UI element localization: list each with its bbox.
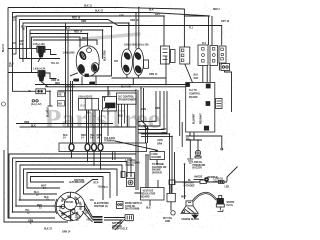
component engine block xyxy=(181,201,199,213)
component gnd terminal circle xyxy=(171,211,175,215)
svg-text:BLK: BLK xyxy=(31,126,36,128)
component R1 connector xyxy=(36,89,46,94)
wire T2 right out xyxy=(45,73,57,79)
svg-text:RED 14: RED 14 xyxy=(74,31,83,34)
svg-text:RED/BLK: RED/BLK xyxy=(208,177,219,179)
svg-text:BLU 17: BLU 17 xyxy=(3,43,5,52)
wire box D stem down xyxy=(165,56,167,85)
wire stator top diag xyxy=(76,180,99,193)
svg-text:L05(+)-10A 1.05(+)-13A: L05(+)-10A 1.05(+)-13A xyxy=(124,44,149,47)
svg-text:ORN: ORN xyxy=(81,21,86,23)
component T1 transformer xyxy=(37,46,45,57)
svg-text:BLK 22: BLK 22 xyxy=(44,229,53,231)
wire riser pair oval4 xyxy=(100,110,102,143)
wire T2 diag xyxy=(41,82,48,87)
wire strip sub pair xyxy=(113,152,116,161)
wire bus W5 ORN xyxy=(23,23,129,62)
wire bus W4 xyxy=(20,20,222,59)
arrowhead 2 xyxy=(146,128,149,131)
svg-text:L05(+)/1Q DC: L05(+)/1Q DC xyxy=(78,96,93,98)
wire bus W1 top xyxy=(8,8,184,48)
component control board G xyxy=(186,83,215,133)
svg-text:ORN: ORN xyxy=(155,108,160,110)
svg-text:BLK: BLK xyxy=(149,10,154,12)
component right small box xyxy=(167,193,175,201)
component stator connector xyxy=(55,192,85,221)
arrowhead tailgate xyxy=(155,150,158,153)
svg-text:D-C CONTROLTRANSFORMER: D-C CONTROLTRANSFORMER xyxy=(118,97,136,102)
wire right label taps xyxy=(141,134,175,194)
wire bus W8 RED14 xyxy=(30,34,88,49)
component small plug xyxy=(117,202,124,209)
svg-text:GRY: GRY xyxy=(119,16,124,18)
component rpm adjust xyxy=(127,173,135,187)
svg-text:1.05(+)-15A: 1.05(+)-15A xyxy=(33,43,46,46)
wire long horizontal y84.5 xyxy=(35,84,186,86)
svg-text:FL1: FL1 xyxy=(189,28,194,30)
wire egg bottom bus xyxy=(112,75,167,85)
wire R1 tbar xyxy=(48,105,53,107)
component box F xyxy=(219,46,226,63)
component led strip box1 xyxy=(169,180,175,185)
wire parallel right drop xyxy=(211,16,213,45)
svg-text:RCP: RCP xyxy=(94,183,99,185)
svg-text:GRY: GRY xyxy=(194,78,199,80)
svg-text:BLK: BLK xyxy=(194,75,199,77)
wire mid harness m8 xyxy=(27,173,110,199)
svg-text:(2+(+)-12): (2+(+)-12) xyxy=(31,104,42,106)
wire stator cross wires xyxy=(59,209,78,221)
arrowhead 1 xyxy=(143,125,146,128)
component led strip box2 xyxy=(200,180,206,184)
wire buzzer feed xyxy=(197,140,199,150)
wire X1 diagonal to board xyxy=(185,64,193,83)
svg-text:BLK GRN: BLK GRN xyxy=(105,50,107,61)
wire W4 left tail xyxy=(20,58,61,60)
wire diode link xyxy=(194,179,204,181)
node B left edge xyxy=(2,102,6,106)
svg-text:1Ph: 1Ph xyxy=(114,61,119,63)
component ignition module egg xyxy=(76,46,99,77)
wire mid harness m9 xyxy=(31,177,104,201)
wire riser pair oval3 xyxy=(93,110,95,143)
wire ctrl bottom bus2 xyxy=(186,139,202,141)
svg-text:GRN 14: GRN 14 xyxy=(149,73,158,76)
svg-text:ENGINE BLOCK: ENGINE BLOCK xyxy=(182,219,200,221)
component box I xyxy=(79,99,99,111)
component T2 transformer xyxy=(38,71,45,82)
component regulator board xyxy=(141,188,165,201)
svg-text:STATOR: STATOR xyxy=(64,201,73,204)
wire bus W7 BLU xyxy=(30,30,103,59)
svg-text:GRN: GRN xyxy=(158,140,163,142)
component left rail breaker xyxy=(13,43,17,54)
wire drop to box K xyxy=(107,87,109,97)
wire box F drops xyxy=(219,63,231,112)
svg-text:BLK 13: BLK 13 xyxy=(95,11,104,13)
wire G bottom drops xyxy=(190,132,194,140)
svg-text:YEL 18: YEL 18 xyxy=(51,63,59,65)
wire ctrl bottom bus1 xyxy=(186,136,222,148)
wire spark cable core xyxy=(193,193,216,201)
wire oval1 drop xyxy=(71,152,73,159)
wire T1 right out xyxy=(45,50,57,55)
wire module diag xyxy=(70,73,78,76)
component box E1 xyxy=(198,45,208,66)
svg-text:ORN: ORN xyxy=(157,144,162,146)
wire outer bottom rail xyxy=(4,150,68,222)
svg-text:IGNITION: IGNITION xyxy=(74,180,85,182)
svg-text:RED 2: RED 2 xyxy=(213,9,220,11)
component buzzer xyxy=(195,150,201,158)
wire riser pair oval1 xyxy=(71,81,73,143)
svg-text:GRY: GRY xyxy=(162,129,167,131)
gray highlight streak xyxy=(80,34,139,40)
svg-text:GRN: GRN xyxy=(74,80,79,82)
wire bus W9 xyxy=(32,37,81,73)
wire drops left of box I xyxy=(66,23,69,127)
component boxed label L2 xyxy=(58,101,65,107)
svg-text:GRN 14: GRN 14 xyxy=(62,231,71,234)
wire recept wires xyxy=(104,218,125,231)
svg-text:1.05(+)/26A: 1.05(+)/26A xyxy=(63,52,76,55)
svg-text:LED: LED xyxy=(225,187,230,189)
wire mid harness m6 xyxy=(20,165,122,200)
wire bus W3 GRY xyxy=(16,16,164,48)
svg-text:GRN: GRN xyxy=(141,109,146,111)
component ctrl conn dot xyxy=(221,148,223,150)
wire elbow staircase xyxy=(138,91,167,133)
wire module bottom tap xyxy=(86,75,112,77)
wire led strip xyxy=(176,181,228,183)
wire mid harness m4 xyxy=(13,158,132,212)
component engine ground xyxy=(192,213,198,219)
wire box E pin drops xyxy=(203,66,210,83)
component connector strip xyxy=(59,143,147,152)
component small terminals xyxy=(32,100,38,102)
svg-text:YEL: YEL xyxy=(86,220,91,222)
component box KT transformer xyxy=(117,93,137,104)
component boxed label L1 xyxy=(58,92,65,97)
wire fuse drop xyxy=(156,160,158,165)
component pin block dark bars xyxy=(93,216,103,223)
component box D xyxy=(161,46,176,64)
wire KT risers xyxy=(119,104,128,127)
svg-text:ORN 14: ORN 14 xyxy=(130,19,139,22)
wire module stems down xyxy=(82,77,96,85)
component box H xyxy=(216,99,223,109)
wire double vertical riser A xyxy=(136,90,138,190)
wire long horizontal y86.8 xyxy=(45,86,186,88)
wire led diag feed xyxy=(227,167,238,182)
wire T1 diag xyxy=(38,58,41,63)
wire R1 right out xyxy=(46,91,50,106)
svg-text:WHT: WHT xyxy=(181,197,187,199)
wire bus W6 xyxy=(27,27,112,77)
component box F2 xyxy=(221,64,230,71)
svg-text:RED: RED xyxy=(82,38,87,40)
wire tailgate diagonal xyxy=(115,141,158,151)
svg-text:ANODE: ANODE xyxy=(194,176,203,179)
wire mid harness m5 xyxy=(16,162,127,207)
svg-text:BLK: BLK xyxy=(87,113,92,115)
wire stator right exits xyxy=(82,202,93,222)
wire egg stems xyxy=(129,8,139,50)
svg-text:1.05(+)-13A: 1.05(+)-13A xyxy=(33,67,46,70)
wire oval4 drop xyxy=(100,152,102,170)
wire mid harness m7 xyxy=(24,169,118,196)
wire oval3 drop xyxy=(93,152,95,166)
wire regulator drops xyxy=(135,180,159,206)
wire bottom right small box stem xyxy=(170,185,172,211)
wire long horizontal y90.8 xyxy=(58,90,137,92)
wire harness diagonal bundle xyxy=(141,88,149,129)
svg-text:BATTERYCATHODE: BATTERYCATHODE xyxy=(184,182,196,188)
wire double vertical riser B xyxy=(146,155,148,188)
component egg module R xyxy=(133,48,143,75)
wire oval2 drop xyxy=(87,152,89,162)
svg-text:BLK: BLK xyxy=(146,208,151,210)
svg-text:GRY: GRY xyxy=(110,90,112,95)
component ground bars left xyxy=(187,159,194,163)
wire T1 left feed xyxy=(8,47,37,49)
wire left border rail xyxy=(8,8,55,219)
wire spark plug cable xyxy=(193,193,216,201)
svg-text:BLU: BLU xyxy=(103,187,108,189)
svg-text:5 1 5: 5 1 5 xyxy=(81,106,87,108)
svg-text:ORN: ORN xyxy=(24,122,29,124)
svg-text:BLU 1.05: BLU 1.05 xyxy=(121,87,132,89)
svg-text:FL2: FL2 xyxy=(202,43,207,45)
svg-text:RED 18: RED 18 xyxy=(72,18,81,20)
wire ground drop xyxy=(189,140,191,159)
component led strip box3 xyxy=(219,181,225,184)
wire R1 left feed xyxy=(12,90,36,92)
svg-text:RE: RE xyxy=(58,95,62,97)
component fuse holder xyxy=(150,152,165,160)
wire mid harness m2 xyxy=(20,126,137,128)
svg-text:BLU/BLK: BLU/BLK xyxy=(48,107,50,117)
wire K2 drop xyxy=(107,111,109,136)
svg-text:GRY 18: GRY 18 xyxy=(221,21,230,23)
svg-text:GRY: GRY xyxy=(155,14,160,16)
component box E2 xyxy=(210,46,218,66)
svg-text:BLU: BLU xyxy=(119,116,124,118)
svg-text:GRY 14A: GRY 14A xyxy=(65,86,75,89)
component box K xyxy=(103,97,117,112)
wire ctrl left drops xyxy=(180,100,183,147)
wire bus W10 RED xyxy=(33,40,97,45)
component diode LED xyxy=(204,177,209,182)
svg-text:RED: RED xyxy=(55,83,60,85)
svg-text:BLU: BLU xyxy=(65,28,70,30)
wire top right jog y16b xyxy=(184,15,210,17)
wire T2 left feed xyxy=(8,72,38,74)
component battery receptacle plug xyxy=(125,214,134,220)
wire riser pair oval2 xyxy=(87,110,89,143)
component small hatch box xyxy=(121,172,125,178)
wire mid harness m1 xyxy=(16,123,113,125)
svg-text:ELECTRONICIGNITION (2): ELECTRONICIGNITION (2) xyxy=(94,203,109,208)
svg-text:ORN: ORN xyxy=(162,133,167,135)
component small box right of eggs xyxy=(144,60,149,68)
wire engine feed xyxy=(184,164,186,199)
component box X1 xyxy=(180,47,190,64)
component spark plug xyxy=(216,196,224,212)
svg-text:RED/WHT: RED/WHT xyxy=(201,113,203,124)
wire bus W2 xyxy=(13,13,209,92)
svg-text:W-: W- xyxy=(29,91,32,93)
svg-text:TAILGATETERMINAL: TAILGATETERMINAL xyxy=(104,137,116,143)
wire elbow pair to strip xyxy=(146,126,148,143)
wire mid harness m3 xyxy=(9,154,137,218)
svg-text:17A: 17A xyxy=(90,199,95,202)
svg-text:NO: NO xyxy=(58,104,62,106)
svg-text:BLU/WHT: BLU/WHT xyxy=(194,113,196,124)
svg-text:BLK 12: BLK 12 xyxy=(84,6,93,8)
scan speckle noise xyxy=(3,3,234,228)
component egg module L xyxy=(121,49,132,75)
svg-text:ORN 18: ORN 18 xyxy=(51,80,60,82)
